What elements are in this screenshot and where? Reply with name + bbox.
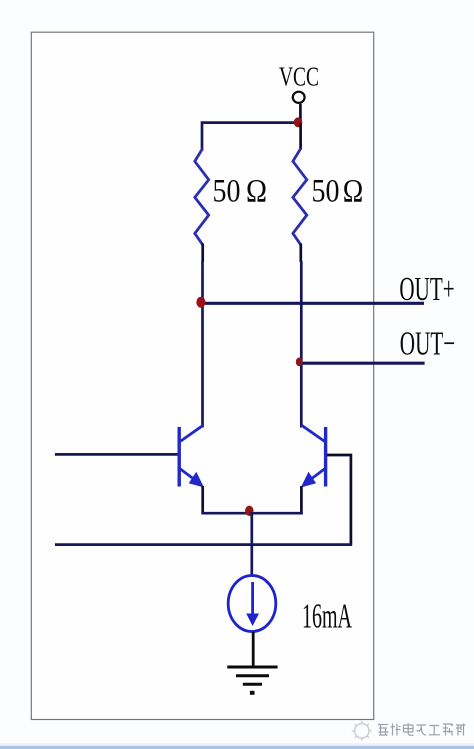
junction top rail xyxy=(294,117,303,127)
bottom strip xyxy=(0,743,474,749)
current source I1 xyxy=(228,576,276,632)
watermark logo xyxy=(352,721,372,741)
wire lower input xyxy=(55,543,352,546)
wire OUT+ xyxy=(201,302,424,305)
transistor Q1 xyxy=(179,425,204,487)
watermark text 硬件电子工程师 xyxy=(378,723,466,735)
label R1 50Ω xyxy=(213,174,268,210)
wire top rail xyxy=(202,123,301,149)
wire Q1 emitter lead xyxy=(201,486,204,515)
svg-text:Ω: Ω xyxy=(343,174,364,210)
wire Q2 emitter lead xyxy=(300,486,303,515)
junction OUT+ xyxy=(196,297,205,308)
wire current source to ground xyxy=(252,632,255,668)
label R2 50Ω xyxy=(312,174,364,210)
resistor R2 xyxy=(293,149,307,245)
ground xyxy=(227,667,277,695)
transistor Q2 xyxy=(301,425,326,487)
resistor R1 xyxy=(195,149,209,245)
wire emitter join xyxy=(201,512,302,515)
junction emitters xyxy=(245,506,253,516)
wire left column xyxy=(201,261,204,428)
wire right column xyxy=(300,261,303,428)
svg-text:50: 50 xyxy=(213,174,241,210)
wire right rail drop xyxy=(299,123,302,150)
wire VCC stub xyxy=(299,104,302,123)
svg-text:Ω: Ω xyxy=(246,174,267,210)
svg-text:OUT+: OUT+ xyxy=(399,271,454,308)
svg-text:VCC: VCC xyxy=(279,62,319,92)
terminal VCC xyxy=(293,92,305,103)
svg-text:OUT−: OUT− xyxy=(400,325,455,362)
junction OUT- xyxy=(296,358,303,367)
wire OUT- xyxy=(300,362,425,365)
svg-text:50: 50 xyxy=(312,174,340,210)
wire Q2 base lead xyxy=(327,455,351,544)
svg-text:16mA: 16mA xyxy=(302,596,352,635)
wire tail to current source xyxy=(250,512,253,578)
wire left base input xyxy=(55,453,178,456)
